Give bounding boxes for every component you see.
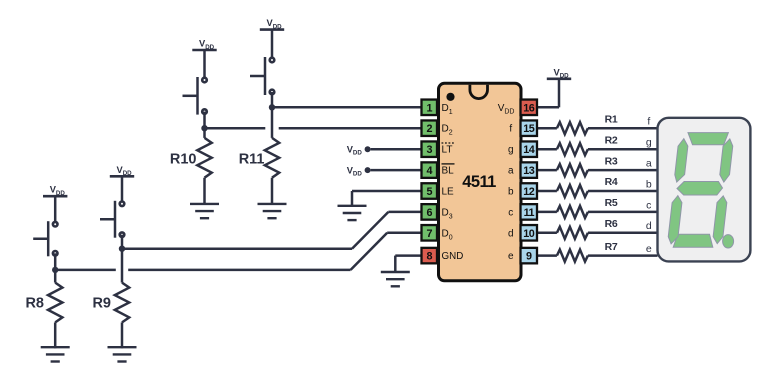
svg-text:BL: BL	[442, 166, 455, 177]
svg-text:4: 4	[426, 165, 432, 177]
svg-text:GND: GND	[442, 251, 464, 262]
svg-text:R5: R5	[605, 197, 618, 209]
svg-text:d: d	[508, 228, 514, 239]
svg-text:e: e	[646, 243, 652, 255]
svg-text:R3: R3	[605, 155, 618, 167]
svg-text:13: 13	[523, 165, 535, 177]
svg-text:3: 3	[426, 144, 432, 156]
svg-text:8: 8	[426, 251, 432, 263]
svg-text:10: 10	[523, 228, 535, 240]
svg-text:R7: R7	[605, 241, 618, 253]
svg-text:f: f	[647, 116, 650, 128]
svg-text:15: 15	[523, 123, 535, 135]
svg-text:c: c	[646, 199, 651, 211]
svg-text:R9: R9	[92, 296, 111, 312]
svg-text:a: a	[508, 166, 514, 177]
svg-text:7: 7	[426, 228, 432, 240]
svg-text:R8: R8	[25, 296, 44, 312]
svg-text:a: a	[646, 158, 652, 170]
svg-text:4511: 4511	[462, 173, 496, 191]
svg-text:b: b	[508, 187, 514, 198]
svg-text:g: g	[508, 145, 514, 156]
svg-text:11: 11	[524, 207, 535, 219]
svg-text:6: 6	[426, 207, 432, 219]
svg-text:f: f	[509, 124, 512, 135]
svg-text:12: 12	[523, 186, 535, 198]
svg-text:R2: R2	[605, 134, 618, 146]
svg-text:R1: R1	[605, 113, 618, 125]
svg-text:R4: R4	[605, 176, 618, 188]
svg-text:2: 2	[426, 123, 432, 135]
svg-text:c: c	[508, 207, 513, 218]
svg-text:16: 16	[523, 102, 535, 114]
svg-text:14: 14	[523, 144, 535, 156]
svg-text:g: g	[646, 137, 652, 149]
svg-text:9: 9	[526, 251, 532, 263]
svg-text:5: 5	[426, 186, 432, 198]
svg-text:LT: LT	[442, 145, 453, 156]
svg-text:1: 1	[426, 102, 432, 114]
svg-text:b: b	[646, 178, 652, 190]
svg-text:d: d	[646, 220, 652, 232]
svg-text:R10: R10	[170, 151, 197, 167]
svg-text:LE: LE	[442, 187, 455, 198]
svg-text:e: e	[508, 251, 514, 262]
svg-text:R11: R11	[239, 151, 265, 167]
svg-text:R6: R6	[605, 218, 618, 230]
